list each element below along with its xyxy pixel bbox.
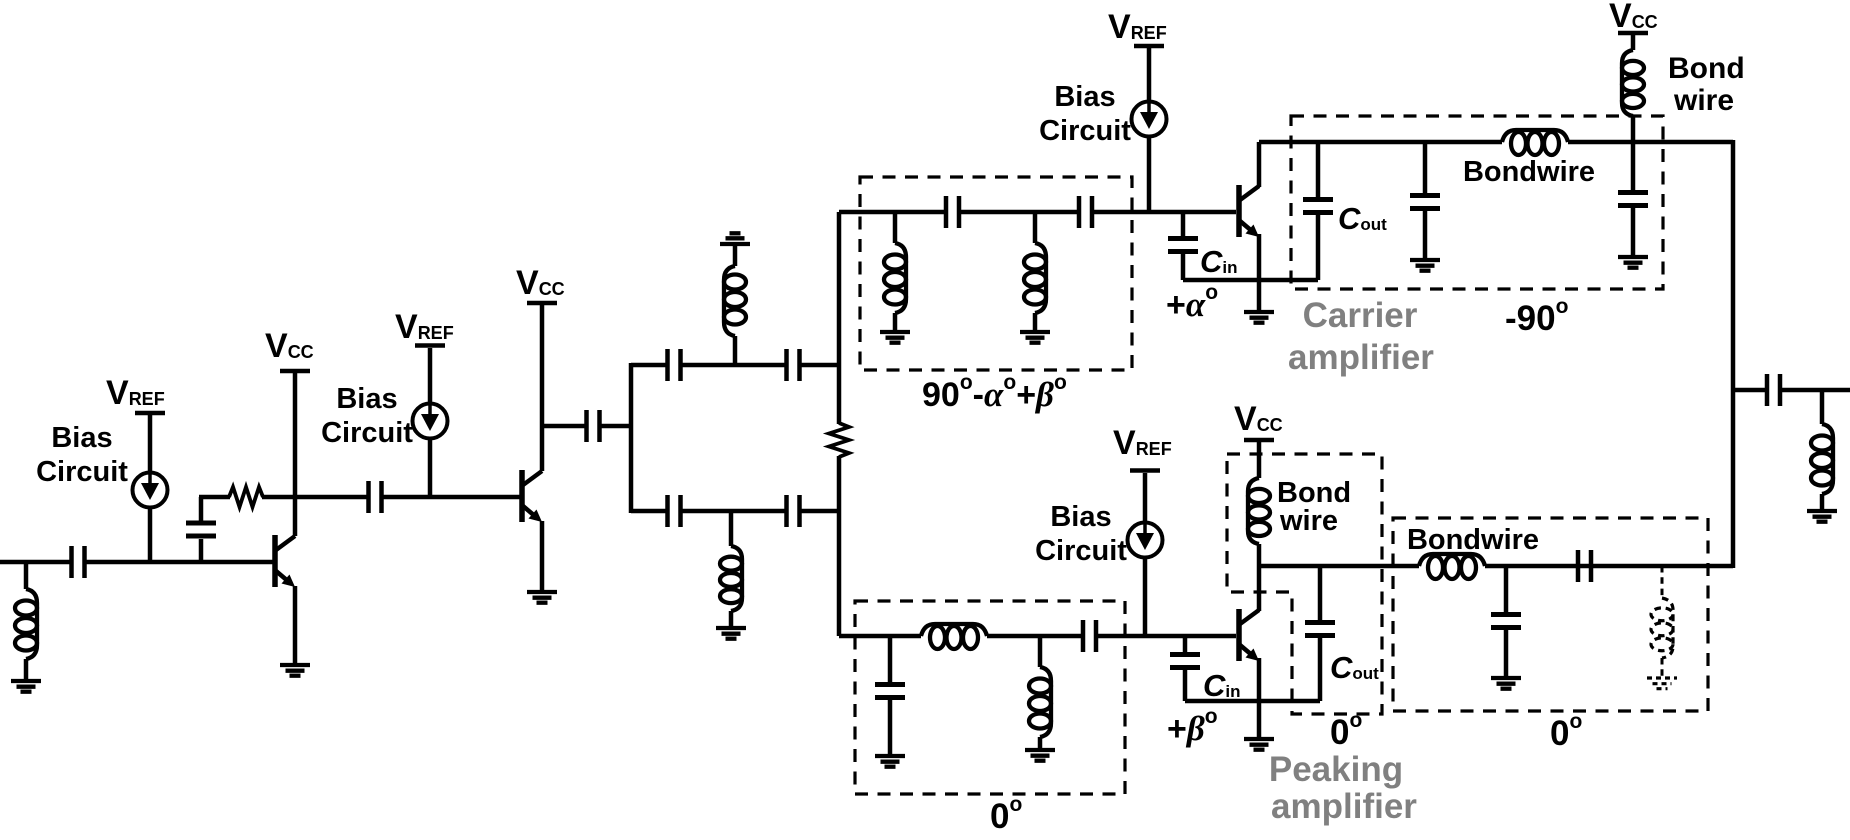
resistor R1 feedback [229,487,263,507]
transistor Q3 carrier [1239,185,1259,237]
transistor Q2 [522,470,542,522]
wire output tap [1733,388,1766,393]
dashed box output match 0 [1393,518,1708,711]
capacitor C14 series [1083,620,1096,652]
inductor L10 bond wire to VCC [1257,442,1262,478]
inductor L6 bondwire [1502,130,1568,155]
wire R1 to Q1 collector net [262,495,368,500]
inductor L1 shunt at input [24,562,29,589]
capacitor Cout carrier [1316,142,1321,197]
svg-text:Bias: Bias [1050,501,1111,533]
ground of C11 [1410,260,1440,271]
power VCC rail 2 [527,301,557,306]
wire L4 to ground [893,313,898,330]
current source I2 bias circuit [413,404,448,439]
ground of C12 [1618,257,1648,268]
inductor L13 shunt output [1820,390,1825,424]
wire feedback top [199,495,230,500]
svg-text:Peaking: Peaking [1269,750,1403,789]
capacitor C9 carrier phase [946,196,959,228]
wire L3 to ground [729,611,734,626]
svg-text:Circuit: Circuit [1039,115,1131,147]
power VREF rail 4 [1130,468,1160,473]
wire C3 to Q2 base [382,495,520,500]
inductor L12 parasitic dashed [1661,566,1664,598]
svg-text:Bondwire: Bondwire [1463,156,1595,188]
node bias2 junction [428,439,433,497]
capacitor Cin peaking [1183,636,1188,656]
power VCC rail 4 [1244,438,1274,443]
svg-text:Bias: Bias [336,383,397,415]
power VCC rail 3 [1618,31,1648,36]
wire carrier line b [960,210,1078,215]
capacitor C17 output [1767,374,1780,406]
wire splitter top branch c [800,363,841,368]
ground of C13 [875,756,905,767]
wire input line [0,560,71,565]
wire splitter bottom branch b [681,509,786,514]
inductor L8 series [921,624,987,649]
ground of C15 [1491,678,1521,689]
capacitor C15 shunt [1504,566,1509,616]
dashed box peaking 0 L-shape [1227,454,1382,714]
wire carrier line c [1093,210,1236,215]
capacitor C6 top branch [787,349,800,381]
wire Q1 collector to VCC [293,373,298,536]
ground of Q4 [1244,739,1274,750]
svg-text:Bias: Bias [51,422,112,454]
wire splitter top branch b [681,363,786,368]
wire L5 to ground [1033,313,1038,330]
capacitor C12 shunt [1631,142,1636,194]
wire splitter left vertical [629,363,634,513]
wire L13 to ground [1820,494,1825,509]
wire C4 to splitter [600,424,631,429]
wire I4 to VREF bar [1143,473,1148,522]
capacitor C10 carrier phase [1079,196,1092,228]
wire output to edge [1781,388,1850,393]
node bias3 junction [1147,137,1152,212]
ground of L1 [11,681,41,692]
svg-text:Bond: Bond [1668,52,1745,85]
wire L9 to ground [1038,737,1043,748]
wire I1 to VREF bar [148,415,153,472]
current source I3 bias circuit [1132,102,1167,137]
capacitor C8 bottom branch [787,495,800,527]
wire peaking output line b [1485,564,1733,569]
wire Q2 collector tap [542,424,586,429]
ground of L3 [716,628,746,639]
capacitor Cout peaking [1318,566,1323,624]
svg-text:wire: wire [1673,84,1734,117]
capacitor C13 shunt [888,636,893,686]
wire I3 to VREF bar [1147,48,1152,102]
ground of L4 [880,332,910,343]
transistor Q1 [275,535,295,587]
inductor L11 bondwire [1419,554,1485,579]
wire peaking output line a [1259,564,1419,569]
resistor R2 isolation [829,423,849,457]
svg-text:Bondwire: Bondwire [1407,524,1539,556]
ground of L9 [1025,750,1055,761]
power VCC rail 1 [280,369,310,374]
power VREF rail 2 [415,343,445,348]
capacitor C11 shunt [1423,142,1428,197]
wire Q4 emitter [1257,658,1262,737]
ground of L2 inverted [720,233,750,244]
dashed box phase network 90-a+b [860,177,1132,370]
wire splitter top branch a [631,363,666,368]
wire carrier output line b [1568,140,1733,145]
wire I2 to VREF bar [428,348,433,404]
wire combiner vertical [1731,140,1736,568]
svg-text:amplifier: amplifier [1288,338,1434,377]
wire peaking line a [839,634,921,639]
node bias4 junction [1143,558,1148,636]
power VREF rail 1 [135,411,165,416]
wire splitter bottom branch c [800,509,841,514]
inductor L9 shunt [1038,636,1043,667]
capacitor C1 series input [72,546,85,578]
wire Q4 collector up [1257,566,1262,611]
dashed box carrier -90 [1291,116,1663,289]
dashed box peaking phase 0 [855,601,1125,794]
wire carrier emitter net [1183,278,1318,283]
capacitor C7 bottom branch [668,495,681,527]
power VREF rail 3 [1134,44,1164,49]
wire peaking line a2 [987,634,1081,639]
wire splitter right vertical top [837,212,842,424]
wire splitter right vertical bottom [837,456,842,636]
wire Q2 collector to VCC [540,305,545,471]
wire Q2 emitter [540,521,545,590]
wire peaking line b [1097,634,1236,639]
inductor L7 bond wire to VCC [1631,35,1636,50]
inductor L3 shunt down [729,511,734,546]
ground of L5 [1020,332,1050,343]
wire splitter bottom branch a [631,509,666,514]
svg-text:90o-αo+βo: 90o-αo+βo [922,371,1067,414]
wire carrier line a [839,210,944,215]
capacitor C2 feedback [199,539,204,562]
inductor L2 shunt up [733,336,738,365]
svg-text:Circuit: Circuit [1035,535,1127,567]
ground of Q3 [1244,312,1274,323]
capacitor Cin carrier [1181,212,1186,240]
current source I4 bias circuit [1128,523,1163,558]
svg-text:wire: wire [1279,505,1338,537]
inductor L5 shunt [1033,212,1038,243]
wire Q1 emitter [293,586,298,663]
wire Q3 emitter [1257,234,1262,310]
capacitor C4 splitter input [587,410,600,442]
capacitor C16 series [1578,550,1591,582]
wire peaking emitter net [1185,699,1320,704]
ground of Q1 [280,665,310,676]
capacitor C3 interstage [369,481,382,513]
ground of L12 dashed [1647,678,1677,689]
wire Q3 collector up [1257,142,1262,187]
node input bias junction [148,508,153,562]
ground of Q2 [527,592,557,603]
transistor Q4 peaking [1239,609,1259,661]
wire carrier output line a [1259,140,1502,145]
svg-text:amplifier: amplifier [1271,787,1417,826]
inductor L4 shunt [893,212,898,243]
ground of L13 [1807,511,1837,522]
wire L2 to ground [733,246,738,266]
current source I1 bias circuit [133,473,168,508]
capacitor C5 top branch [668,349,681,381]
svg-text:Bias: Bias [1054,81,1115,113]
svg-text:Circuit: Circuit [36,456,128,488]
svg-text:Carrier: Carrier [1303,296,1418,335]
svg-text:Circuit: Circuit [321,417,413,449]
wire C1 to Q1 base [85,560,273,565]
